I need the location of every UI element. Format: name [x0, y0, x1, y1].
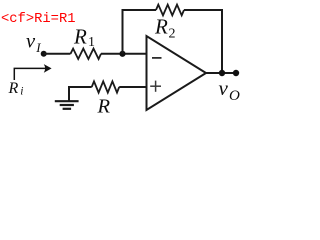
svg-text:R: R — [154, 15, 168, 39]
svg-text:v: v — [26, 31, 36, 53]
svg-text:2: 2 — [169, 27, 176, 42]
label R1 — [73, 25, 95, 51]
wire output — [206, 72, 236, 74]
plus sign — [150, 81, 161, 92]
node junction dot — [119, 51, 125, 57]
wire ground to R — [69, 87, 92, 101]
resistor R2 — [156, 5, 184, 16]
label Ri — [8, 80, 24, 98]
wire feedback right down to output — [184, 10, 222, 73]
wire R1 to op-amp minus input — [101, 53, 147, 55]
svg-text:R: R — [8, 80, 19, 97]
svg-text:O: O — [229, 88, 240, 104]
minus sign — [152, 57, 162, 59]
svg-text:R: R — [97, 96, 111, 118]
label vO — [219, 76, 241, 104]
arrow Ri annotation — [14, 64, 51, 80]
svg-text:i: i — [20, 86, 23, 98]
svg-text:I: I — [35, 40, 41, 55]
label R2 — [154, 15, 176, 42]
resistor R — [92, 81, 120, 92]
node feedback/output junction dot — [219, 70, 225, 76]
resistor R1 — [71, 49, 102, 59]
svg-text:1: 1 — [88, 35, 95, 50]
node vI dot — [41, 51, 47, 57]
svg-text:<cf>Ri=R1: <cf>Ri=R1 — [1, 11, 76, 27]
wire vI to R1 — [44, 53, 71, 55]
svg-text:v: v — [219, 76, 229, 100]
wire feedback left+top — [123, 10, 157, 54]
node vI label — [26, 31, 41, 56]
op-amp U1 triangle — [147, 36, 207, 110]
ground — [55, 101, 79, 109]
wire R to op-amp plus input — [119, 86, 146, 88]
svg-text:R: R — [73, 25, 87, 49]
node output terminal dot — [233, 70, 239, 76]
